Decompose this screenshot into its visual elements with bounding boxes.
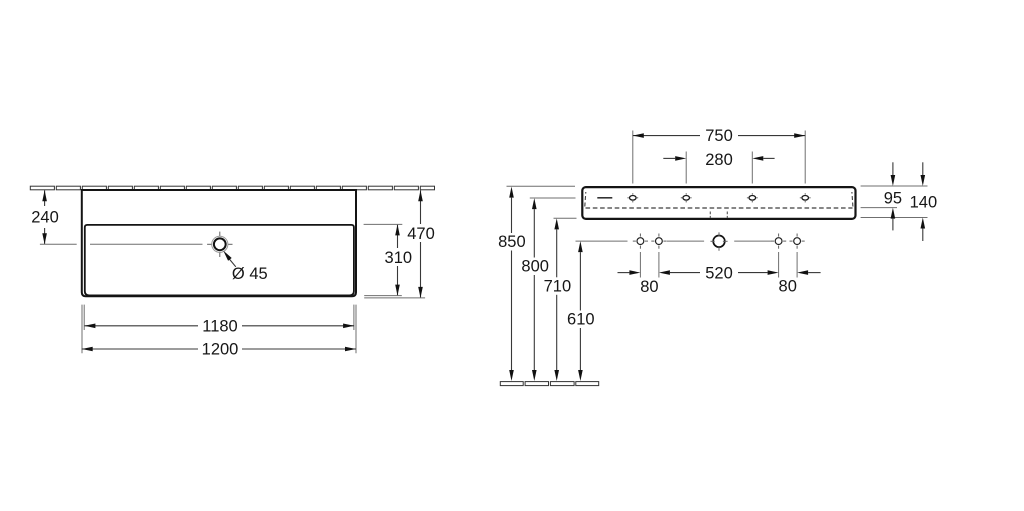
svg-text:140: 140	[910, 194, 938, 212]
svg-text:850: 850	[498, 233, 526, 251]
svg-text:470: 470	[407, 225, 435, 243]
svg-text:240: 240	[31, 208, 59, 226]
bowl centerline	[90, 243, 203, 245]
pilot hole 1	[633, 234, 648, 249]
svg-text:280: 280	[705, 151, 733, 169]
dimension 470	[364, 190, 435, 298]
faucet hole row centerline	[667, 240, 771, 242]
washbasin inner bowl outline (plan view)	[85, 225, 354, 296]
dimension 710	[544, 218, 577, 381]
svg-text:610: 610	[567, 311, 595, 329]
pilot hole 3	[771, 234, 786, 249]
dimension 1180	[84, 305, 354, 336]
svg-text:1200: 1200	[202, 341, 239, 359]
svg-text:310: 310	[385, 249, 413, 267]
dimension 95	[884, 162, 902, 230]
washbasin front profile outline	[582, 187, 855, 219]
svg-text:750: 750	[705, 127, 733, 145]
dimension 80 right	[779, 270, 821, 295]
dimension 610	[567, 241, 627, 381]
pilot hole 2	[651, 234, 666, 249]
dimension 850	[498, 186, 575, 381]
center faucet hole	[711, 232, 728, 250]
dimension 240	[31, 190, 76, 244]
dimension 280	[663, 151, 774, 184]
dimension 140	[910, 162, 938, 241]
faucet ledge holes (4 slots)	[627, 193, 810, 202]
svg-text:520: 520	[705, 264, 733, 282]
inner bowl bottom (dashed)	[585, 192, 853, 208]
svg-text:Ø 45: Ø 45	[232, 265, 268, 283]
svg-text:710: 710	[544, 277, 572, 295]
wall section tiles (plan view)	[30, 186, 434, 190]
dimension 310	[364, 224, 412, 295]
dimension 750	[633, 127, 805, 183]
svg-text:80: 80	[640, 278, 658, 296]
svg-text:80: 80	[779, 277, 797, 295]
extension lines right of profile	[861, 186, 928, 218]
svg-text:1180: 1180	[202, 317, 237, 335]
floor section tiles	[500, 382, 598, 386]
washbasin outer outline (plan view)	[82, 190, 356, 296]
overflow mark (left short line)	[597, 197, 612, 199]
drain hole	[207, 232, 232, 257]
dimension 80 left	[618, 270, 659, 296]
leader arrow to drain	[223, 251, 236, 267]
extension lines below holes	[640, 252, 797, 278]
svg-text:800: 800	[521, 258, 549, 276]
dimension 1200	[82, 305, 356, 359]
dimension 800	[521, 198, 575, 381]
svg-text:95: 95	[884, 189, 902, 207]
pilot hole 4	[790, 234, 805, 249]
dimension 520	[659, 264, 779, 282]
drain marks under profile	[710, 212, 727, 219]
